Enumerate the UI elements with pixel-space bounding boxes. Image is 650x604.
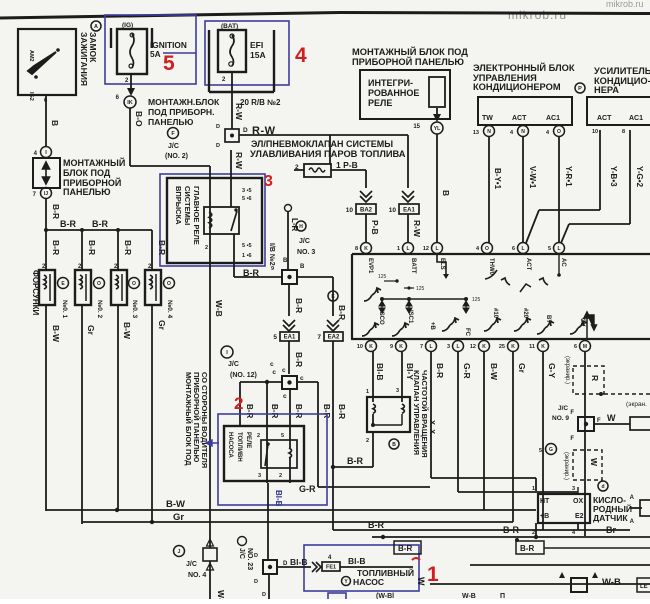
svg-text:B-R: B-R [337, 305, 347, 320]
svg-text:mikrob.ru: mikrob.ru [606, 0, 644, 9]
svg-text:B-R: B-R [245, 404, 254, 418]
svg-text:Y-R•1: Y-R•1 [564, 166, 573, 187]
svg-text:I/B №2: I/B №2 [268, 243, 276, 266]
svg-text:7: 7 [317, 334, 321, 341]
svg-text:W-B: W-B [602, 577, 621, 588]
svg-text:B-R: B-R [87, 240, 97, 255]
svg-text:BA2: BA2 [360, 208, 373, 214]
svg-text:OX: OX [579, 318, 585, 327]
svg-text:8: 8 [622, 129, 625, 135]
svg-text:#20: #20 [522, 308, 528, 319]
svg-text:Gr: Gr [86, 325, 96, 336]
svg-text:+B: +B [429, 322, 435, 331]
svg-text:МОНТАЖН.БЛОК: МОНТАЖН.БЛОК [148, 97, 220, 107]
svg-text:ДАТЧИК: ДАТЧИК [593, 513, 628, 523]
svg-text:13: 13 [473, 130, 479, 136]
svg-text:3: 3 [264, 173, 273, 190]
svg-text:R-W: R-W [234, 103, 244, 121]
svg-text:B-R: B-R [51, 240, 61, 255]
svg-text:(NO. 2): (NO. 2) [165, 153, 188, 160]
svg-text:ПАНЕЛЬЮ: ПАНЕЛЬЮ [148, 117, 194, 127]
svg-text:B-R: B-R [123, 240, 133, 255]
svg-text:B-R: B-R [51, 204, 61, 219]
svg-text:6: 6 [574, 344, 577, 350]
svg-text:(экранир.): (экранир.) [564, 356, 570, 384]
svg-text:F: F [570, 436, 574, 442]
svg-text:2: 2 [257, 433, 260, 439]
svg-text:1: 1 [532, 486, 535, 492]
svg-text:ВПРЫСКА: ВПРЫСКА [174, 186, 183, 225]
svg-text:Bl-B: Bl-B [290, 557, 307, 567]
svg-text:B-W: B-W [122, 322, 132, 340]
svg-text:A: A [94, 24, 98, 30]
svg-text:П: П [500, 593, 505, 599]
svg-text:20 R/B №2: 20 R/B №2 [240, 98, 281, 107]
svg-text:G-Y: G-Y [547, 363, 557, 378]
svg-text:5: 5 [163, 52, 175, 75]
svg-text:Х. Х.: Х. Х. [428, 420, 437, 436]
svg-text:O: O [485, 246, 489, 252]
svg-text:ПАНЕЛЬЮ: ПАНЕЛЬЮ [63, 187, 111, 197]
svg-text:НЕРА: НЕРА [594, 85, 619, 95]
svg-text:W-: W- [216, 590, 226, 599]
svg-text:c: c [300, 375, 304, 382]
svg-text:O: O [97, 281, 101, 287]
svg-text:P: P [578, 86, 582, 92]
svg-text:TW: TW [482, 115, 493, 122]
svg-text:B: B [50, 120, 60, 126]
svg-text:A: A [630, 519, 635, 525]
svg-text:ЗАМОК: ЗАМОК [88, 32, 98, 63]
svg-text:(экранир.): (экранир.) [563, 452, 569, 480]
svg-text:5: 5 [281, 433, 284, 439]
svg-text:W-B: W-B [462, 593, 476, 599]
svg-text:ПРИБОРНОЙ ПАНЕЛЬЮ: ПРИБОРНОЙ ПАНЕЛЬЮ [192, 372, 201, 463]
svg-text:W: W [589, 458, 599, 467]
svg-text:J: J [178, 549, 181, 555]
svg-text:5 •6: 5 •6 [242, 196, 252, 202]
svg-text:3 •5: 3 •5 [242, 188, 252, 194]
svg-text:КОНДИЦИОНЕРОМ: КОНДИЦИОНЕРОМ [473, 82, 561, 92]
svg-text:5: 5 [539, 448, 542, 454]
svg-text:ГЛАВНОЕ РЕЛЕ: ГЛАВНОЕ РЕЛЕ [192, 186, 201, 245]
svg-text:E2: E2 [575, 513, 584, 520]
svg-text:МОНТАЖНЫЙ: МОНТАЖНЫЙ [63, 157, 125, 168]
svg-text:ЭЛЕКТРОННЫЙ БЛОК: ЭЛЕКТРОННЫЙ БЛОК [473, 62, 575, 73]
svg-text:8: 8 [355, 246, 358, 252]
svg-text:10: 10 [389, 207, 397, 214]
svg-text:EA1: EA1 [284, 335, 296, 341]
svg-text:B-R: B-R [368, 520, 384, 530]
svg-text:FE1: FE1 [326, 565, 336, 571]
svg-text:NO. 4: NO. 4 [188, 572, 206, 579]
svg-text:FC: FC [464, 328, 470, 337]
svg-text:3: 3 [258, 473, 261, 479]
svg-text:5A: 5A [150, 49, 161, 59]
svg-text:15A: 15A [250, 50, 266, 60]
svg-text:L: L [406, 246, 409, 252]
svg-text:125: 125 [416, 286, 425, 292]
svg-text:A: A [630, 495, 635, 501]
svg-text:c: c [270, 361, 274, 368]
svg-text:THW0: THW0 [488, 258, 494, 276]
svg-text:P-B: P-B [370, 220, 380, 235]
svg-text:LE: LE [640, 584, 648, 590]
svg-text:G-R: G-R [462, 363, 472, 379]
svg-text:d: d [601, 484, 604, 490]
svg-text:B-Y•1: B-Y•1 [493, 168, 502, 190]
svg-text:УСИЛИТЕЛЬ: УСИЛИТЕЛЬ [594, 66, 650, 76]
svg-text:O: O [557, 129, 561, 135]
svg-text:3: 3 [396, 388, 399, 394]
svg-text:ТОПЛИВН: ТОПЛИВН [236, 432, 242, 462]
svg-text:D: D [254, 579, 258, 585]
svg-text:B-R: B-R [435, 363, 445, 378]
svg-text:EVP1: EVP1 [367, 258, 373, 274]
svg-text:J/C: J/C [228, 361, 239, 368]
svg-text:D: D [262, 592, 266, 598]
svg-text:ELS: ELS [439, 258, 445, 270]
svg-text:H: H [299, 224, 303, 230]
svg-text:5 •5: 5 •5 [242, 243, 252, 249]
svg-text:O: O [132, 281, 136, 287]
svg-text:11: 11 [529, 344, 535, 350]
svg-text:L: L [429, 344, 432, 350]
svg-text:B-R: B-R [270, 404, 279, 418]
svg-text:B: B [300, 264, 305, 270]
svg-text:N: N [487, 129, 491, 135]
svg-text:L: L [456, 344, 459, 350]
svg-text:3: 3 [447, 344, 450, 350]
svg-text:№0. 3: №0. 3 [131, 300, 138, 318]
svg-text:12: 12 [423, 246, 429, 252]
svg-text:5: 5 [273, 334, 277, 341]
svg-text:СИСТЕМЫ: СИСТЕМЫ [183, 186, 192, 225]
svg-text:c: c [283, 393, 287, 400]
svg-text:125: 125 [378, 274, 387, 280]
svg-text:B: B [441, 190, 451, 196]
svg-text:№0. 1: №0. 1 [61, 300, 68, 318]
svg-text:IK: IK [127, 100, 133, 106]
svg-text:Gr: Gr [173, 512, 184, 523]
svg-text:J/C: J/C [238, 548, 245, 559]
svg-text:Bl-B: Bl-B [274, 490, 283, 507]
svg-text:B-R: B-R [92, 219, 108, 229]
svg-text:10: 10 [592, 129, 598, 135]
svg-text:G-R: G-R [299, 484, 316, 494]
svg-text:№0. 2: №0. 2 [96, 300, 103, 318]
svg-text:BATT: BATT [410, 258, 416, 274]
svg-text:ACT: ACT [597, 115, 612, 122]
svg-text:W: W [416, 577, 426, 586]
svg-text:L: L [435, 246, 438, 252]
svg-text:J/C: J/C [299, 238, 310, 245]
svg-text:J/C: J/C [558, 405, 568, 412]
svg-text:D: D [216, 124, 220, 130]
svg-text:J/C: J/C [168, 143, 179, 150]
svg-text:B-R: B-R [503, 525, 519, 535]
svg-text:(W-Bl: (W-Bl [376, 593, 394, 599]
svg-text:СО СТОРОНЫ ВОДИТЕЛЯ: СО СТОРОНЫ ВОДИТЕЛЯ [200, 372, 209, 468]
svg-text:D: D [254, 553, 258, 559]
svg-text:6: 6 [512, 246, 515, 252]
svg-text:B-R: B-R [60, 219, 76, 229]
svg-text:9: 9 [271, 266, 274, 272]
svg-text:O: O [167, 281, 171, 287]
svg-text:125: 125 [472, 297, 481, 303]
svg-text:B-R: B-R [398, 544, 412, 553]
svg-text:EA1: EA1 [403, 208, 415, 214]
svg-text:2: 2 [532, 530, 535, 536]
svg-text:10: 10 [346, 207, 354, 214]
svg-text:K: K [364, 246, 368, 252]
svg-text:10: 10 [357, 344, 363, 350]
svg-text:Br: Br [606, 525, 616, 535]
svg-text:G: G [549, 447, 553, 453]
svg-text:2: 2 [279, 473, 282, 479]
svg-text:2: 2 [234, 394, 243, 413]
svg-text:D: D [216, 143, 220, 149]
svg-text:c: c [282, 367, 286, 374]
svg-text:B-R: B-R [294, 352, 304, 367]
svg-text:W: W [607, 413, 616, 423]
svg-text:M: M [583, 344, 587, 350]
svg-text:ЗАЖИГАНИЯ: ЗАЖИГАНИЯ [79, 32, 89, 86]
svg-text:9: 9 [390, 344, 393, 350]
svg-text:c: c [272, 369, 276, 376]
svg-text:R-W: R-W [412, 220, 422, 238]
svg-text:5: 5 [548, 246, 551, 252]
svg-text:12: 12 [470, 344, 476, 350]
svg-text:IJ: IJ [44, 191, 48, 197]
svg-text:EFI: EFI [250, 40, 263, 50]
svg-text:AC1: AC1 [546, 115, 560, 122]
svg-text:N: N [521, 129, 525, 135]
svg-text:Gr: Gr [517, 363, 527, 374]
svg-text:AC1: AC1 [629, 115, 643, 122]
svg-text:HT: HT [540, 498, 550, 505]
svg-text:РЕЛЕ: РЕЛЕ [368, 98, 392, 108]
svg-text:Y-B•3: Y-B•3 [609, 166, 618, 187]
svg-text:(экран.: (экран. [626, 401, 647, 408]
svg-text:B-O: B-O [134, 111, 144, 127]
svg-text:R-W: R-W [234, 152, 244, 170]
svg-text:B-R: B-R [294, 298, 304, 313]
svg-text:Bl-B: Bl-B [375, 363, 385, 380]
svg-text:1: 1 [397, 246, 400, 252]
svg-text:1 P-B: 1 P-B [336, 160, 358, 170]
svg-text:B-R: B-R [294, 404, 303, 418]
svg-text:W-B: W-B [214, 300, 224, 317]
svg-text:РОВАННОЕ: РОВАННОЕ [368, 88, 419, 98]
svg-text:НАСОСА: НАСОСА [227, 432, 233, 459]
svg-text:+B: +B [540, 513, 549, 520]
svg-text:K: K [511, 344, 515, 350]
svg-text:NO. 3: NO. 3 [297, 249, 315, 256]
svg-text:B-R: B-R [157, 240, 167, 255]
svg-text:#10: #10 [492, 308, 498, 319]
svg-text:ACT: ACT [512, 115, 527, 122]
svg-text:3: 3 [572, 486, 575, 492]
svg-text:D: D [243, 127, 248, 134]
svg-text:ПРИБОРНОЙ ПАНЕЛЬЮ: ПРИБОРНОЙ ПАНЕЛЬЮ [352, 56, 464, 67]
svg-text:B-W: B-W [166, 499, 185, 510]
svg-text:K: K [482, 344, 486, 350]
svg-text:ISC1: ISC1 [407, 310, 413, 324]
svg-text:B-W: B-W [51, 325, 61, 343]
svg-text:МОНТАЖНЫЙ БЛОК ПОД: МОНТАЖНЫЙ БЛОК ПОД [352, 46, 468, 57]
svg-text:mikrob.ru: mikrob.ru [508, 8, 567, 22]
svg-text:L: L [521, 246, 524, 252]
svg-text:(NO. 12): (NO. 12) [230, 372, 257, 379]
svg-text:МОНТАЖНЫЙ БЛОК ПОД: МОНТАЖНЫЙ БЛОК ПОД [184, 372, 193, 466]
svg-text:IG2: IG2 [28, 92, 34, 101]
svg-text:AM2: AM2 [28, 50, 34, 62]
svg-text:B-W: B-W [489, 363, 499, 381]
svg-text:R: R [590, 375, 600, 381]
svg-text:ИНТЕГРИ-: ИНТЕГРИ- [368, 78, 413, 88]
svg-text:4: 4 [295, 44, 307, 67]
svg-text:ACT: ACT [525, 258, 531, 271]
svg-text:Bl-B: Bl-B [348, 556, 365, 566]
svg-text:7: 7 [420, 344, 423, 350]
svg-text:УЛАВЛИВАНИЯ ПАРОВ ТОПЛИВА: УЛАВЛИВАНИЯ ПАРОВ ТОПЛИВА [250, 149, 406, 159]
svg-text:K: K [399, 344, 403, 350]
svg-text:БЛОК ПОД: БЛОК ПОД [63, 168, 111, 178]
svg-text:AC: AC [560, 258, 566, 267]
svg-text:ПОД ПРИБОРН.: ПОД ПРИБОРН. [148, 107, 215, 117]
svg-text:15: 15 [413, 124, 420, 130]
svg-text:КЛАПАН УПРАВЛЕНИЯ: КЛАПАН УПРАВЛЕНИЯ [412, 370, 421, 455]
svg-text:L: L [557, 246, 560, 252]
svg-text:ЧАСТОТОЙ ВРАЩЕНИЯ: ЧАСТОТОЙ ВРАЩЕНИЯ [420, 370, 429, 458]
svg-text:РЕЛЕ: РЕЛЕ [245, 432, 251, 448]
svg-text:Y-G•2: Y-G•2 [635, 166, 644, 188]
svg-text:EA2: EA2 [328, 335, 340, 341]
svg-text:K: K [541, 344, 545, 350]
svg-text:1: 1 [366, 389, 369, 395]
svg-text:25: 25 [499, 344, 505, 350]
svg-text:ФОРСУНКИ: ФОРСУНКИ [31, 270, 40, 315]
svg-text:BT: BT [545, 315, 551, 323]
svg-text:№0. 4: №0. 4 [166, 300, 173, 318]
svg-text:NO. 9: NO. 9 [552, 415, 569, 422]
svg-text:J/C: J/C [186, 561, 197, 568]
svg-text:B-R: B-R [337, 404, 347, 419]
svg-text:V-W•1: V-W•1 [528, 166, 537, 189]
svg-text:ЭЛ/ПНЕВМОКЛАПАН СИСТЕМЫ: ЭЛ/ПНЕВМОКЛАПАН СИСТЕМЫ [251, 139, 393, 149]
svg-text:B-R: B-R [520, 544, 534, 553]
svg-text:NO. 23: NO. 23 [246, 548, 253, 570]
svg-text:1 •6: 1 •6 [242, 253, 252, 259]
svg-text:НАСОС: НАСОС [353, 577, 384, 587]
svg-text:YL: YL [434, 126, 440, 132]
svg-text:2: 2 [366, 438, 369, 444]
svg-text:Gr: Gr [157, 320, 167, 331]
svg-text:B: B [392, 442, 396, 448]
svg-text:1: 1 [427, 563, 439, 586]
svg-text:D: D [283, 561, 288, 567]
svg-text:F: F [570, 410, 574, 416]
svg-text:ISCO: ISCO [378, 310, 384, 325]
svg-text:K: K [369, 344, 373, 350]
svg-text:B-R: B-R [347, 456, 363, 466]
svg-text:B-R: B-R [243, 268, 259, 278]
svg-text:2: 2 [205, 245, 208, 251]
svg-text:OX: OX [573, 498, 583, 505]
